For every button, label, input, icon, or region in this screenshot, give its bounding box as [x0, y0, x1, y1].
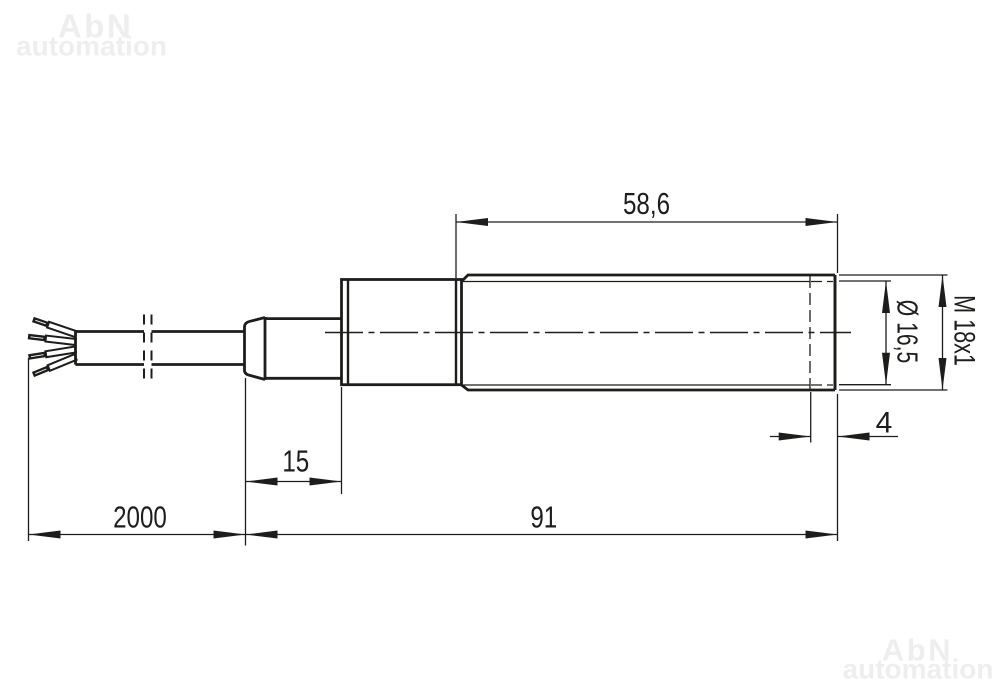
dim 15 ext left [245, 378, 247, 546]
body end face [834, 275, 837, 390]
housing sleeve [342, 280, 462, 385]
dim 58,6 ext left [455, 214, 457, 278]
dim 4 ext left [810, 392, 812, 443]
wire 4 (bottom) [32, 354, 77, 377]
svg-text:2000: 2000 [113, 500, 167, 535]
svg-text:58,6: 58,6 [623, 186, 670, 221]
cable break mark left [143, 315, 145, 382]
svg-text:Ø 16,5: Ø 16,5 [891, 300, 923, 364]
dim dia 16,5 ext top [839, 280, 891, 282]
dim 15 ext right [341, 387, 343, 494]
dim M 18x1 ext bottom [839, 389, 948, 391]
svg-text:15: 15 [282, 444, 309, 479]
dim 58,6 arrows [456, 218, 488, 226]
cable gland barrel top [265, 317, 342, 320]
dim dia 16,5 line [885, 281, 887, 385]
dim dia 16,5 ext bottom [839, 384, 891, 386]
svg-text:M 18x1: M 18x1 [948, 295, 982, 366]
wire 2 [28, 334, 76, 345]
threaded body outline [462, 275, 836, 390]
svg-text:91: 91 [530, 500, 557, 535]
dim M 18x1 ext top [839, 274, 948, 276]
thread root top [463, 281, 810, 283]
cable break mark right [151, 315, 153, 382]
dim M 18x1 line [942, 275, 944, 390]
strain relief cone [245, 318, 266, 380]
thread root top hidden [811, 281, 833, 283]
sleeve right inner ring [455, 280, 457, 385]
dim 58,6 line [456, 221, 838, 223]
dim 2000 line [29, 534, 246, 536]
svg-text:automation: automation [16, 31, 167, 62]
cable bottom edge [76, 363, 145, 366]
svg-text:automation: automation [843, 654, 994, 685]
svg-text:4: 4 [876, 407, 893, 440]
cable top edge [76, 330, 145, 333]
dim 2000 ext left [28, 358, 30, 541]
dim 15 line [246, 481, 342, 483]
cable gland barrel bottom [265, 377, 342, 380]
wire 1 (top) [32, 317, 77, 337]
sleeve left inner ring [347, 280, 349, 385]
wire 3 [28, 347, 76, 360]
thread root bottom [463, 384, 810, 386]
dim 4 leader left [770, 436, 811, 438]
dim 91 line [246, 534, 838, 536]
thread root bottom hidden [811, 384, 833, 386]
dim 4 ext right lower [837, 394, 839, 541]
thread runout hidden line [809, 276, 811, 389]
cable end face [74, 332, 77, 365]
centerline [325, 332, 851, 334]
dim 58,6 ext right [837, 214, 839, 273]
dim 4 leader right [838, 436, 899, 438]
